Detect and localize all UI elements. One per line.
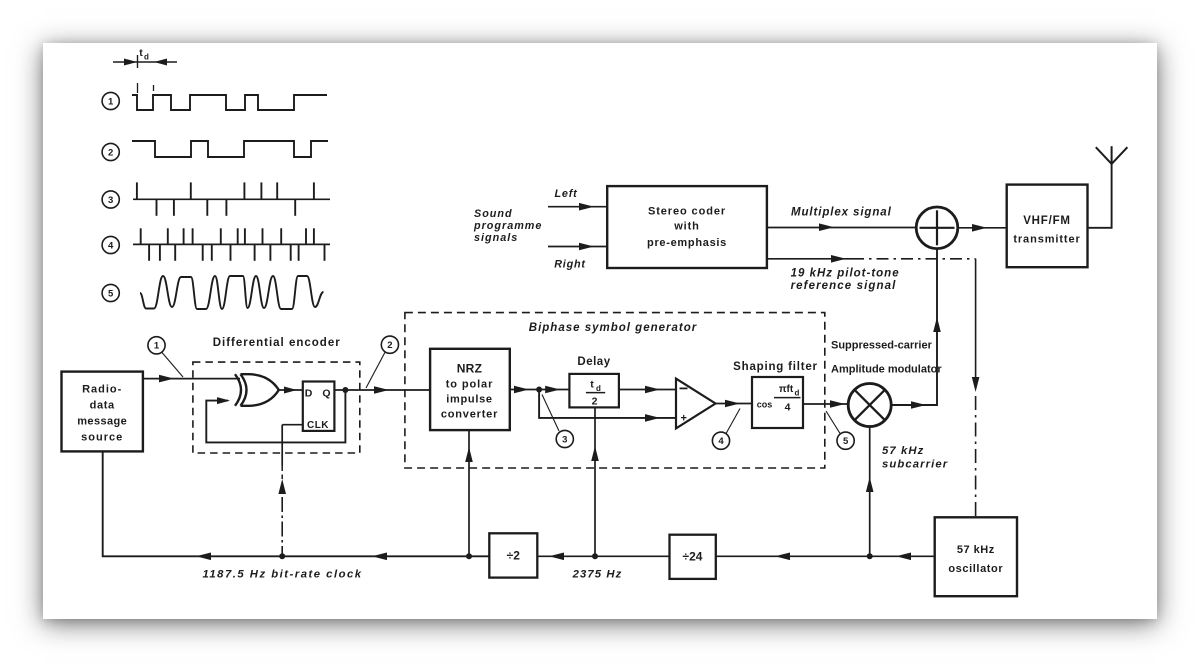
- svg-text:5: 5: [108, 288, 114, 299]
- wire node to adder plus input: [539, 390, 676, 418]
- arrowhead into modulator: [830, 400, 845, 408]
- adder triangle (combiner): [676, 379, 716, 429]
- block D-Q flip-flop: [303, 382, 335, 431]
- arrowhead into shaping filter: [725, 400, 740, 408]
- block shaping filter cos(pi f t_d/4): [752, 377, 803, 428]
- svg-text:Differential encoder: Differential encoder: [213, 337, 341, 349]
- svg-text:Radio-: Radio-: [82, 384, 122, 396]
- node label circle 3 (waveform row): [102, 191, 119, 208]
- svg-text:source: source: [81, 432, 123, 444]
- arrowhead down to oscillator: [972, 377, 980, 392]
- arrowhead multiplex: [819, 223, 834, 231]
- junction node after NRZ: [536, 387, 542, 393]
- node label circle 5 (waveform row): [102, 284, 119, 301]
- svg-text:3: 3: [108, 195, 113, 206]
- antenna: [1088, 164, 1112, 228]
- block divider by 24: [670, 535, 716, 579]
- waveform 4 negative impulses: [148, 244, 150, 260]
- wire into delay bottom: [594, 407, 596, 446]
- svg-text:CLK: CLK: [307, 420, 329, 431]
- svg-text:4: 4: [108, 240, 114, 251]
- pilot-tone dash-dot horizontal: [852, 258, 976, 260]
- arrowhead right input: [579, 243, 594, 251]
- svg-text:57 kHz: 57 kHz: [882, 445, 924, 457]
- leader line circle 4: [726, 409, 740, 434]
- svg-text:D: D: [305, 388, 313, 400]
- svg-text:4: 4: [785, 402, 791, 414]
- arrowhead into adder minus input: [645, 386, 660, 394]
- summing junction adder circle: [916, 207, 958, 249]
- wire multiplex signal: [767, 227, 916, 229]
- svg-text:57 kHz: 57 kHz: [957, 544, 995, 556]
- XOR gate of differential encoder: [235, 374, 279, 406]
- node label circle 4: [712, 432, 729, 449]
- block NRZ to polar impulse converter: [430, 349, 510, 430]
- arrowhead on clock rail left: [196, 553, 211, 561]
- svg-text:Multiplex signal: Multiplex signal: [791, 207, 892, 219]
- svg-text:2: 2: [108, 147, 113, 158]
- arrowhead toward subcarrier node: [896, 553, 911, 561]
- CLK vertical wire upper: [281, 425, 283, 466]
- wire adder to shaping filter: [716, 403, 753, 405]
- waveform 5 shaped biphase trace: [140, 276, 324, 309]
- wire NRZ to delay: [510, 389, 570, 391]
- pilot-tone vertical dash-dot to oscillator: [975, 396, 977, 517]
- svg-text:oscillator: oscillator: [948, 563, 1003, 575]
- svg-text:subcarrier: subcarrier: [882, 459, 948, 471]
- svg-text:transmitter: transmitter: [1013, 234, 1080, 246]
- svg-text:to polar: to polar: [446, 379, 494, 391]
- waveform 4 positive impulses: [140, 228, 142, 244]
- grid dash a: [137, 83, 139, 93]
- arrowhead up into delay: [591, 446, 599, 461]
- block VHF/FM transmitter: [1007, 185, 1088, 268]
- wire shaping filter to modulator: [803, 403, 848, 405]
- arrowhead pilot-tone: [831, 255, 846, 263]
- svg-text:message: message: [77, 416, 127, 428]
- arrowhead up into NRZ: [465, 447, 473, 462]
- svg-text:5: 5: [843, 436, 849, 447]
- svg-text:with: with: [673, 221, 700, 233]
- svg-text:data: data: [90, 400, 115, 412]
- arrowhead left input: [579, 203, 594, 211]
- arrowhead on clock rail right: [372, 553, 387, 561]
- svg-text:19 kHz pilot-tone: 19 kHz pilot-tone: [791, 268, 900, 280]
- arrowhead into divider 2: [549, 553, 564, 561]
- wire modulator output up to adder junction: [891, 249, 937, 405]
- block divider by 2: [489, 533, 537, 577]
- t_d right arrow: [154, 59, 167, 66]
- svg-text:Biphase symbol generator: Biphase symbol generator: [529, 322, 697, 334]
- waveform 4 baseline: [133, 243, 330, 245]
- fraction bar: [586, 392, 605, 394]
- minus sign at adder: [680, 387, 688, 389]
- arrowhead into VHF: [972, 224, 987, 232]
- wire delay to adder minus input: [619, 389, 676, 391]
- antenna centre stick: [1111, 146, 1113, 164]
- modulator X stroke 1: [855, 390, 885, 420]
- feedback wire Q to XOR input: [206, 390, 345, 442]
- svg-text:Stereo coder: Stereo coder: [648, 206, 726, 218]
- wire right input: [548, 246, 607, 248]
- wire left input: [548, 206, 607, 208]
- node label circle 1: [148, 337, 165, 354]
- waveform 3 positive impulses: [136, 182, 138, 199]
- svg-text:1: 1: [108, 96, 114, 107]
- waveform 2 differentially encoded trace: [132, 141, 328, 157]
- wire XOR output to D input: [279, 389, 303, 391]
- node label circle 3: [556, 430, 573, 447]
- svg-text:signals: signals: [474, 232, 518, 244]
- svg-text:Amplitude modulator: Amplitude modulator: [831, 364, 942, 376]
- wire 57kHz subcarrier to modulator: [869, 427, 871, 557]
- svg-text:4: 4: [718, 436, 724, 447]
- wire radio-data to XOR: [143, 378, 240, 380]
- dashed box biphase symbol generator: [405, 313, 825, 468]
- svg-text:2: 2: [592, 396, 598, 408]
- wire oscillator to divider 24: [716, 555, 935, 557]
- wire 2375Hz up to delay clock: [594, 446, 596, 556]
- arrowhead up on subcarrier wire: [866, 477, 874, 492]
- svg-text:VHF/FM: VHF/FM: [1023, 215, 1071, 227]
- waveform 1 data clock trace: [132, 95, 327, 110]
- plus horizontal: [920, 227, 955, 229]
- wire 19kHz pilot-tone solid part: [767, 258, 852, 260]
- node label circle 1 (waveform row): [102, 92, 119, 109]
- node label circle 4 (waveform row): [102, 236, 119, 253]
- svg-text:d: d: [596, 384, 601, 393]
- svg-text:d: d: [795, 389, 800, 398]
- svg-text:Q: Q: [322, 388, 330, 400]
- svg-text:+: +: [680, 413, 686, 425]
- CLK vertical wire dash segment: [281, 466, 283, 479]
- svg-text:NRZ: NRZ: [457, 362, 483, 376]
- svg-text:converter: converter: [441, 409, 498, 421]
- block 57 kHz oscillator: [935, 517, 1017, 596]
- junction node subcarrier tap: [867, 553, 873, 559]
- svg-text:t: t: [590, 379, 594, 391]
- svg-text:programme: programme: [473, 220, 542, 232]
- node label circle 2: [381, 336, 398, 353]
- svg-text:2: 2: [387, 340, 392, 351]
- leader line from circle 2 to wire: [366, 352, 385, 388]
- junction node at Q output: [342, 387, 348, 393]
- arrowhead feedback into XOR: [217, 397, 230, 404]
- CLK vertical dash-dot to clock rail: [281, 497, 283, 556]
- svg-text:Sound: Sound: [474, 208, 513, 220]
- svg-text:cos: cos: [757, 400, 773, 410]
- grid dash b: [153, 85, 155, 91]
- arrowhead into divider 24: [775, 553, 790, 561]
- arrowhead into D: [284, 387, 297, 394]
- svg-text:πft: πft: [779, 384, 794, 395]
- wire into NRZ bottom: [468, 430, 470, 447]
- arrowhead up toward summing junction: [933, 317, 941, 332]
- node label circle 2 (waveform row): [102, 143, 119, 160]
- svg-text:÷2: ÷2: [507, 549, 521, 563]
- t_d tick: [137, 55, 139, 68]
- svg-text:1: 1: [154, 341, 160, 352]
- svg-text:Left: Left: [555, 188, 578, 200]
- t_d dimension line: [113, 61, 177, 63]
- svg-text:2375 Hz: 2375 Hz: [572, 569, 623, 581]
- leader line from node to circle 3: [542, 395, 559, 432]
- svg-text:d: d: [144, 53, 149, 62]
- plus vertical: [936, 210, 938, 245]
- wire Q output to NRZ converter: [334, 389, 429, 391]
- arrowhead after NRZ: [514, 386, 529, 394]
- svg-text:impulse: impulse: [446, 394, 492, 406]
- waveform 3 negative impulses: [156, 199, 158, 216]
- dashed box differential encoder: [193, 362, 360, 453]
- arrowhead into delay: [545, 386, 560, 394]
- leader line circle 5: [826, 411, 840, 433]
- waveform 3 baseline: [133, 198, 330, 200]
- arrowhead on wire to NRZ: [374, 386, 389, 394]
- svg-text:1187.5 Hz bit-rate clock: 1187.5 Hz bit-rate clock: [202, 569, 362, 581]
- wire to VHF transmitter: [958, 227, 1007, 229]
- modulator X stroke 2: [855, 390, 885, 420]
- svg-text:Suppressed-carrier: Suppressed-carrier: [831, 340, 933, 352]
- pilot-tone vertical upper: [975, 259, 977, 378]
- junction node NRZ clock tap: [466, 553, 472, 559]
- junction node encoder clock tap: [279, 553, 285, 559]
- svg-text:Delay: Delay: [577, 356, 610, 368]
- arrowhead modulator output: [911, 401, 926, 409]
- node label circle 5: [837, 432, 854, 449]
- antenna right arm: [1112, 147, 1128, 164]
- wire divider24 to divider2: [537, 555, 669, 557]
- block delay t_d/2: [569, 374, 619, 408]
- fraction bar shaping filter: [774, 397, 801, 399]
- leader line from circle 1 to wire: [162, 353, 183, 378]
- junction node 2375 Hz tap: [592, 553, 598, 559]
- svg-text:÷24: ÷24: [683, 550, 703, 564]
- wire into CLK pin: [282, 424, 303, 426]
- svg-text:reference signal: reference signal: [791, 280, 897, 292]
- svg-text:pre-emphasis: pre-emphasis: [647, 237, 727, 249]
- arrowhead up on clock wire: [278, 479, 286, 494]
- arrowhead into adder plus input: [645, 414, 660, 422]
- arrowhead on wire to encoder: [159, 375, 174, 383]
- t_d left arrow: [124, 59, 137, 66]
- svg-text:t: t: [139, 47, 143, 59]
- suppressed-carrier amplitude modulator (multiplier): [848, 384, 891, 427]
- block stereo coder with pre-emphasis: [607, 186, 767, 268]
- svg-text:Right: Right: [554, 259, 586, 271]
- block Radio-data message source: [62, 372, 143, 452]
- svg-text:3: 3: [562, 434, 567, 445]
- svg-text:Shaping filter: Shaping filter: [733, 361, 818, 373]
- wire clock up to NRZ: [468, 447, 470, 556]
- bit-rate clock rail: [103, 451, 490, 556]
- antenna left arm: [1096, 147, 1112, 164]
